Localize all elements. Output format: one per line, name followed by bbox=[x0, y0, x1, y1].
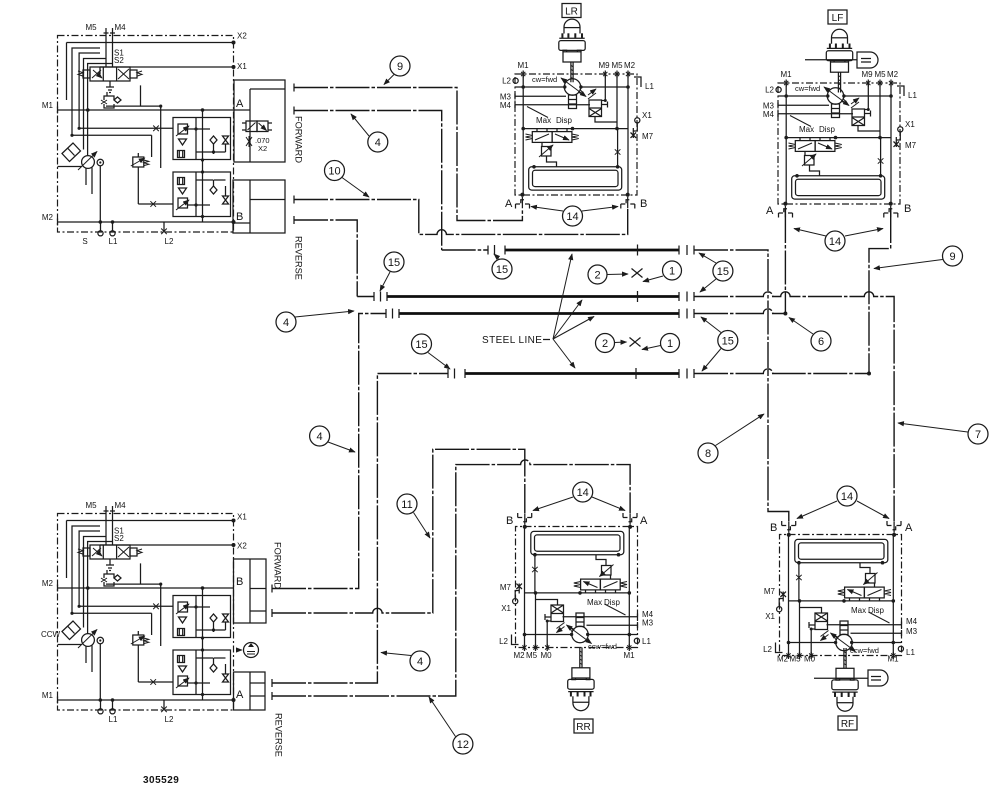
wire P1 FORWARD-2 to steel line 1 (item 4) bbox=[294, 111, 442, 251]
svg-text:L1: L1 bbox=[109, 715, 118, 724]
svg-text:M5: M5 bbox=[85, 23, 97, 32]
wire LF A drop bbox=[784, 209, 786, 314]
wheel motor RR stack bbox=[568, 648, 594, 711]
svg-text:L1: L1 bbox=[109, 237, 118, 246]
callout 15 b bbox=[492, 254, 512, 279]
coupler X mark upper (item 2) bbox=[632, 269, 643, 278]
svg-text:4: 4 bbox=[283, 317, 289, 329]
svg-text:M4: M4 bbox=[906, 617, 918, 626]
svg-text:L1: L1 bbox=[906, 648, 915, 657]
svg-text:FORWARD: FORWARD bbox=[294, 116, 304, 163]
svg-text:L1: L1 bbox=[642, 637, 651, 646]
svg-text:M2: M2 bbox=[42, 213, 54, 222]
steel line 1 (heavy) bbox=[505, 249, 679, 252]
svg-text:X2: X2 bbox=[237, 32, 247, 41]
wheel motor RF stack bbox=[832, 648, 858, 711]
svg-text:L2: L2 bbox=[165, 715, 174, 724]
coupler X mark lower (item 2) bbox=[630, 338, 641, 347]
svg-text:M2: M2 bbox=[42, 579, 54, 588]
svg-text:X1: X1 bbox=[237, 513, 247, 522]
callout 6 bbox=[789, 318, 831, 352]
callout 2 lower bbox=[596, 334, 627, 353]
pump P1 labels bbox=[42, 23, 247, 246]
svg-text:M0: M0 bbox=[540, 651, 552, 660]
svg-text:Disp: Disp bbox=[868, 606, 885, 615]
wheel motor LF tag box bbox=[828, 10, 847, 24]
svg-text:Max: Max bbox=[536, 116, 551, 125]
svg-text:4: 4 bbox=[317, 431, 323, 443]
callout 12 bbox=[429, 697, 473, 754]
callout 4 mid-left bbox=[276, 311, 354, 332]
svg-text:M0: M0 bbox=[804, 655, 816, 664]
svg-text:STEEL LINE: STEEL LINE bbox=[482, 335, 542, 346]
svg-text:B: B bbox=[640, 198, 647, 210]
svg-text:1: 1 bbox=[667, 338, 673, 350]
svg-text:2: 2 bbox=[602, 338, 608, 350]
svg-text:M7: M7 bbox=[642, 132, 654, 141]
svg-text:M1: M1 bbox=[42, 101, 54, 110]
svg-text:S: S bbox=[82, 237, 87, 246]
svg-text:9: 9 bbox=[949, 251, 955, 263]
svg-text:M2: M2 bbox=[624, 61, 636, 70]
svg-text:6: 6 bbox=[818, 336, 824, 348]
callout 11 bbox=[397, 494, 430, 538]
svg-text:M5: M5 bbox=[874, 70, 886, 79]
svg-text:A: A bbox=[640, 515, 648, 527]
callout 15 a bbox=[380, 252, 404, 291]
callout 4 bottom bbox=[381, 651, 430, 671]
steel line 2 tick bbox=[637, 291, 639, 302]
svg-text:M4: M4 bbox=[642, 610, 654, 619]
wheel motor RR labels bbox=[499, 583, 654, 660]
svg-text:15: 15 bbox=[722, 336, 734, 348]
svg-text:M1: M1 bbox=[623, 651, 635, 660]
svg-text:B: B bbox=[236, 576, 243, 588]
svg-text:14: 14 bbox=[566, 211, 578, 223]
svg-text:A: A bbox=[766, 205, 774, 217]
svg-text:M7: M7 bbox=[764, 587, 776, 596]
svg-text:M4: M4 bbox=[500, 101, 512, 110]
wheel motor LF steering hub bbox=[805, 52, 878, 68]
pump P2 (rear, bottom-left) bbox=[58, 506, 236, 714]
svg-text:4: 4 bbox=[417, 656, 423, 668]
wire LF B drop (item 9 right) bbox=[869, 209, 891, 374]
callout 14 RF bbox=[797, 486, 889, 519]
svg-text:12: 12 bbox=[457, 739, 469, 751]
svg-text:LF: LF bbox=[832, 13, 844, 24]
wheel motor RF tag box bbox=[838, 716, 857, 730]
svg-text:9: 9 bbox=[397, 61, 403, 73]
callout 7 bbox=[898, 423, 988, 444]
svg-text:ccw=fwd: ccw=fwd bbox=[588, 642, 617, 651]
svg-text:2: 2 bbox=[594, 270, 600, 282]
pump P1 FORWARD box bbox=[234, 80, 286, 162]
svg-text:L2: L2 bbox=[499, 637, 508, 646]
svg-text:M9: M9 bbox=[861, 70, 873, 79]
svg-text:X2: X2 bbox=[258, 144, 267, 153]
svg-text:15: 15 bbox=[388, 257, 400, 269]
steel line 2 right lead to RF A (item 7) bbox=[694, 292, 894, 521]
wheel motor RF labels bbox=[763, 587, 918, 664]
svg-text:4: 4 bbox=[375, 137, 381, 149]
svg-text:M1: M1 bbox=[780, 70, 792, 79]
svg-text:14: 14 bbox=[829, 236, 841, 248]
svg-text:A: A bbox=[236, 98, 244, 110]
svg-text:X1: X1 bbox=[237, 62, 247, 71]
wire P1 REVERSE-1 to LR B (item 10) bbox=[294, 200, 628, 235]
svg-text:Max: Max bbox=[851, 606, 866, 615]
svg-text:Disp: Disp bbox=[819, 125, 836, 134]
svg-text:cw=fwd: cw=fwd bbox=[795, 84, 820, 93]
wheel motor LF body bbox=[776, 80, 904, 218]
svg-text:Disp: Disp bbox=[604, 598, 621, 607]
svg-text:15: 15 bbox=[496, 264, 508, 276]
svg-text:Max: Max bbox=[799, 125, 814, 134]
steel line 1 tick bbox=[637, 245, 639, 256]
svg-text:305529: 305529 bbox=[143, 775, 179, 786]
callout 1 upper bbox=[643, 261, 682, 282]
steel line 3 (heavy) bbox=[399, 312, 679, 315]
svg-text:7: 7 bbox=[975, 429, 981, 441]
wire P2 FORWARD-2 to RR B (item 11) bbox=[272, 449, 525, 613]
callout 15 e (right lower, two arrows) bbox=[701, 317, 738, 371]
svg-text:M1: M1 bbox=[42, 691, 54, 700]
callout 1 lower bbox=[642, 334, 680, 353]
steel line 4 (heavy) bbox=[465, 372, 679, 375]
steel line 4 left lead from P2 REVERSE-1 bbox=[272, 374, 448, 684]
svg-text:LR: LR bbox=[565, 7, 578, 18]
callout 4 top bbox=[351, 114, 388, 152]
svg-text:A: A bbox=[505, 198, 513, 210]
steel line 1 right lead to RF B (item 8) bbox=[694, 250, 789, 521]
svg-text:M4: M4 bbox=[763, 110, 775, 119]
svg-text:Disp: Disp bbox=[556, 116, 573, 125]
svg-text:B: B bbox=[236, 211, 243, 223]
svg-text:B: B bbox=[506, 515, 513, 527]
svg-text:A: A bbox=[905, 522, 913, 534]
svg-text:L2: L2 bbox=[765, 86, 774, 95]
svg-text:ccw=fwd: ccw=fwd bbox=[850, 646, 879, 655]
pump P2 LADA gauge bbox=[236, 643, 259, 658]
callout 15 d (right upper, two arrows) bbox=[699, 253, 733, 292]
svg-text:X1: X1 bbox=[642, 111, 652, 120]
svg-text:M2: M2 bbox=[887, 70, 899, 79]
pump P2 labels bbox=[41, 501, 247, 724]
svg-text:M3: M3 bbox=[642, 619, 654, 628]
steel line 4 right lead to LF B bbox=[694, 369, 869, 374]
callout 14 RR bbox=[533, 482, 625, 511]
steel line 1 left lead bbox=[442, 249, 488, 251]
pump P2 REVERSE box bbox=[234, 672, 266, 710]
wheel motor RF body (rotated+shifted) bbox=[776, 521, 904, 659]
callout 9 top bbox=[384, 56, 410, 85]
wire P2 REVERSE-2 to RR A (item 12) bbox=[272, 460, 630, 696]
wheel motor LR tag box bbox=[562, 4, 581, 18]
pump P2 REVERSE port ticks bbox=[271, 679, 273, 700]
STEEL LINE pointer fan bbox=[553, 254, 572, 339]
wire P1 FORWARD-1 to LR A (item 9) bbox=[294, 88, 522, 221]
svg-text:M1: M1 bbox=[517, 61, 529, 70]
pump P1 REVERSE port ticks bbox=[293, 196, 295, 225]
svg-text:8: 8 bbox=[705, 448, 711, 460]
svg-text:Max: Max bbox=[587, 598, 602, 607]
svg-text:L2: L2 bbox=[165, 237, 174, 246]
svg-text:L1: L1 bbox=[908, 91, 917, 100]
svg-text:S2: S2 bbox=[114, 534, 124, 543]
svg-text:1: 1 bbox=[669, 266, 675, 278]
svg-text:L2: L2 bbox=[502, 77, 511, 86]
svg-text:M5: M5 bbox=[526, 651, 538, 660]
svg-text:M7: M7 bbox=[905, 141, 917, 150]
svg-text:M4: M4 bbox=[114, 501, 126, 510]
svg-text:M1: M1 bbox=[887, 655, 899, 664]
svg-text:M5: M5 bbox=[789, 655, 801, 664]
svg-text:B: B bbox=[770, 522, 777, 534]
wheel motor RR tag box bbox=[574, 719, 593, 733]
pump P1 (front, top-left) bbox=[58, 28, 236, 236]
steel line 3 left lead from P2 FORWARD-1 bbox=[272, 314, 386, 589]
svg-text:M4: M4 bbox=[114, 23, 126, 32]
pump P2 FORWARD port ticks bbox=[271, 585, 273, 618]
svg-text:RR: RR bbox=[576, 722, 590, 733]
svg-text:L2: L2 bbox=[763, 645, 772, 654]
steel line 4 tick bbox=[635, 368, 637, 379]
callout 9 right bbox=[874, 246, 963, 269]
svg-text:15: 15 bbox=[415, 339, 427, 351]
pump P2 FORWARD box bbox=[234, 559, 267, 623]
wire P1 REVERSE-2 to steel line 2 bbox=[294, 220, 357, 297]
callout 14 LF bbox=[794, 229, 883, 252]
svg-text:CCW: CCW bbox=[41, 630, 61, 639]
wheel motor RF steering hub bbox=[814, 670, 888, 686]
svg-text:FORWARD: FORWARD bbox=[273, 542, 283, 589]
svg-text:cw=fwd: cw=fwd bbox=[532, 75, 557, 84]
callout 10 bbox=[325, 161, 370, 198]
wheel motor LR stack bbox=[559, 19, 585, 82]
svg-text:B: B bbox=[904, 203, 911, 215]
callout 14 LR bbox=[531, 206, 618, 226]
steel line 2 left lead bbox=[357, 296, 374, 298]
svg-text:15: 15 bbox=[717, 266, 729, 278]
svg-text:X1: X1 bbox=[501, 604, 511, 613]
svg-text:X1: X1 bbox=[765, 612, 775, 621]
svg-text:S2: S2 bbox=[114, 56, 124, 65]
svg-text:L1: L1 bbox=[645, 82, 654, 91]
wheel motor LF labels bbox=[763, 70, 918, 150]
wheel motor LR body bbox=[513, 71, 641, 209]
svg-text:10: 10 bbox=[328, 166, 340, 178]
svg-text:M2: M2 bbox=[777, 655, 789, 664]
svg-text:X1: X1 bbox=[905, 120, 915, 129]
svg-text:M3: M3 bbox=[906, 627, 918, 636]
wheel motor RR body (rotated) bbox=[512, 513, 640, 651]
svg-text:M2: M2 bbox=[513, 651, 525, 660]
callout 2 upper bbox=[588, 265, 628, 284]
svg-text:M9: M9 bbox=[598, 61, 610, 70]
pump P1 FORWARD port ticks bbox=[293, 84, 295, 115]
wheel motor LR labels bbox=[500, 61, 655, 141]
svg-text:14: 14 bbox=[841, 491, 853, 503]
wheel motor LF stack bbox=[826, 29, 852, 92]
svg-text:X2: X2 bbox=[237, 542, 247, 551]
svg-text:A: A bbox=[236, 689, 244, 701]
callout 4 lower-left bbox=[310, 426, 355, 452]
svg-text:RF: RF bbox=[841, 719, 854, 730]
svg-text:11: 11 bbox=[401, 499, 412, 511]
svg-text:REVERSE: REVERSE bbox=[294, 236, 304, 280]
svg-text:REVERSE: REVERSE bbox=[274, 713, 284, 757]
svg-text:M5: M5 bbox=[611, 61, 623, 70]
callout 15 c bbox=[412, 334, 451, 369]
svg-text:M5: M5 bbox=[85, 501, 97, 510]
steel line 3 right lead to LF A bbox=[694, 309, 785, 314]
steel line 2 (heavy) bbox=[387, 295, 679, 298]
callout 8 bbox=[698, 414, 764, 463]
pump P1 REVERSE box bbox=[233, 180, 285, 233]
svg-text:M7: M7 bbox=[500, 583, 512, 592]
svg-text:14: 14 bbox=[577, 487, 589, 499]
